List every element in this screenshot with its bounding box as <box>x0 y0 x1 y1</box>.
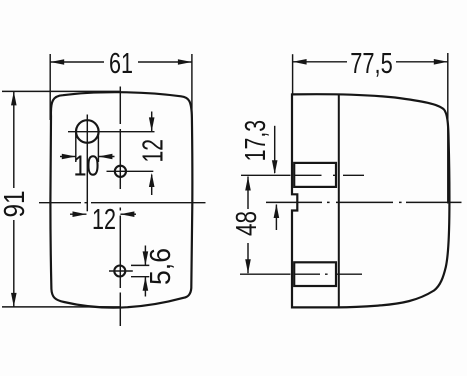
svg-text:91: 91 <box>0 191 31 218</box>
svg-text:10: 10 <box>74 151 100 183</box>
svg-text:12: 12 <box>92 204 116 236</box>
svg-text:17,3: 17,3 <box>240 120 272 162</box>
svg-text:48: 48 <box>231 211 263 236</box>
svg-text:61: 61 <box>109 48 133 80</box>
svg-text:77,5: 77,5 <box>350 48 393 80</box>
svg-text:5,6: 5,6 <box>145 248 177 285</box>
svg-text:12: 12 <box>137 139 169 163</box>
